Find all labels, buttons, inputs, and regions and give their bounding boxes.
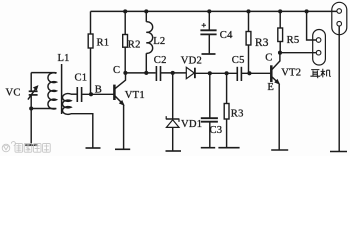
wire VT2 collector to earphone lower contact: [280, 52, 316, 54]
capacitor C4 (electrolytic): [200, 11, 216, 53]
capacitor C5: [237, 67, 241, 81]
junction VT1 collector / R2 node: [123, 71, 127, 75]
resistor R3 (detector load, lower): [224, 73, 229, 147]
svg-text:R3: R3: [231, 108, 244, 119]
junction rail / earphone feed: [305, 9, 309, 13]
inductor L1 primary winding: [48, 73, 56, 109]
svg-text:R1: R1: [97, 38, 110, 49]
ground (VC / tank): [25, 144, 38, 146]
wire secondary bottom return to ground: [71, 114, 93, 148]
ground (R3 lower): [218, 147, 239, 149]
svg-text:C1: C1: [75, 73, 88, 84]
ground (L1 secondary): [86, 147, 101, 149]
wire VD2 cathode to C5: [196, 72, 237, 74]
resistor R5: [278, 11, 283, 52]
junction tank bottom node: [29, 106, 33, 110]
ground (C4): [202, 53, 216, 55]
capacitor C1: [77, 87, 81, 102]
earphone jack left capsule: [313, 30, 326, 66]
svg-text:C3: C3: [210, 125, 223, 136]
svg-text:R3: R3: [255, 37, 269, 49]
resistor R2: [123, 11, 128, 73]
svg-text:VD2: VD2: [181, 55, 202, 66]
svg-text:B: B: [95, 84, 102, 95]
svg-text:VD1: VD1: [181, 119, 202, 130]
inductor L1 secondary winding: [62, 94, 71, 115]
svg-text:R5: R5: [287, 35, 300, 46]
ground (VT1 emitter): [115, 148, 130, 150]
label 耳机 (earphone, drawn strokes): [310, 69, 330, 78]
junction R3 tap node: [225, 71, 229, 75]
svg-text:C: C: [113, 65, 120, 76]
svg-text:VT1: VT1: [125, 90, 145, 101]
wire rail to earphone upper contact: [307, 11, 317, 40]
junction rail / R5: [278, 9, 282, 13]
ground (C3): [201, 147, 215, 149]
svg-text:C4: C4: [220, 30, 233, 41]
watermark: [2, 142, 50, 153]
svg-text:VT2: VT2: [281, 67, 301, 78]
wire collector row to C2: [125, 72, 155, 74]
variable capacitor VC: [28, 73, 38, 145]
ground (earphone): [330, 151, 347, 153]
svg-text:VC: VC: [6, 88, 21, 99]
wire C2 to VD2 anode: [161, 72, 186, 74]
capacitor C3: [201, 73, 218, 147]
transistor VT1 (NPN): [114, 73, 125, 149]
resistor R3 (base bias of VT2): [246, 11, 251, 73]
wire earphone return to ground: [338, 26, 340, 151]
junction R3 upper / VT2 base node: [247, 71, 251, 75]
junction VD1 tap node: [171, 71, 175, 75]
svg-text:R2: R2: [128, 40, 141, 51]
svg-text:C5: C5: [232, 55, 245, 66]
svg-text:L2: L2: [153, 36, 165, 47]
capacitor C2: [156, 66, 160, 81]
inductor L2: [146, 11, 152, 73]
junction rail / R3 upper: [246, 9, 250, 13]
diode VD1 (cathode up, to ground): [166, 73, 180, 151]
wire tank top (VC to L1 primary): [31, 72, 55, 74]
ground (VD1): [166, 150, 182, 152]
wire C5 to VT2 base: [242, 72, 270, 74]
wire top supply rail: [91, 10, 337, 12]
svg-text:E: E: [267, 82, 274, 93]
junction rail / C4: [207, 9, 211, 13]
wire secondary top to C1: [71, 93, 77, 95]
svg-text:C: C: [265, 52, 272, 63]
wire tank bottom (L1 primary to VC branch): [31, 108, 56, 110]
junction rail / R2: [123, 9, 127, 13]
junction rail / L2: [144, 9, 148, 13]
diode VD2 (series detector): [186, 67, 195, 78]
ground (VT2 emitter): [271, 149, 288, 151]
wire C1 to VT1 base: [82, 93, 113, 95]
earphone jack right capsule: [332, 2, 347, 34]
transformer L1 core: [61, 64, 63, 114]
junction R5 / VT2 collector node: [278, 51, 282, 55]
svg-text:L1: L1: [58, 53, 70, 64]
transistor VT2 (NPN): [271, 53, 280, 150]
junction node B (R1 / C1 / VT1 base): [89, 92, 93, 96]
junction L2 bottom node: [144, 71, 148, 75]
svg-text:C2: C2: [154, 55, 167, 66]
resistor R1: [88, 11, 93, 94]
junction C3 tap node: [208, 71, 212, 75]
